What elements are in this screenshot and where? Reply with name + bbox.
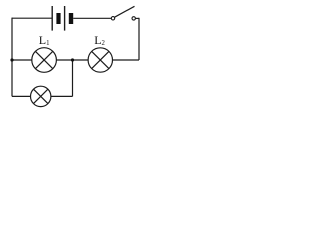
wire: battery to switch [73, 17, 111, 19]
lamp L3 (bottom branch) [31, 86, 51, 106]
battery cell 2 long plate [64, 6, 66, 31]
wire: bottom horizontal [12, 95, 73, 97]
wire: parallel branch vertical [72, 60, 74, 96]
battery cell 2 short thick plate [69, 13, 73, 24]
battery cell 1 long plate [51, 6, 53, 31]
wire: middle horizontal row [12, 59, 139, 61]
node: junction dot left [10, 58, 13, 61]
wire: top horizontal from top-left corner to battery [12, 17, 52, 19]
wire: right vertical side [138, 18, 140, 60]
switch right contact circle [132, 17, 135, 20]
node: junction dot middle [71, 58, 74, 61]
lamp L2 [88, 48, 112, 72]
svg-text:L2: L2 [94, 33, 105, 47]
wire: switch to top-right corner [136, 17, 140, 19]
lamp L1 [32, 48, 57, 73]
svg-text:L1: L1 [39, 33, 50, 47]
switch left contact circle [111, 17, 114, 20]
switch blade (open) [115, 6, 135, 17]
battery cell 1 short thick plate [56, 13, 60, 24]
wire: left vertical side [11, 18, 13, 97]
